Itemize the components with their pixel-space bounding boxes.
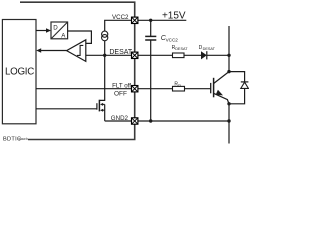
svg-text:D: D <box>53 24 58 31</box>
source arrow <box>100 109 103 112</box>
node C_VCC2/GND2 junction <box>149 119 152 122</box>
LOGIC block U1 <box>2 20 36 124</box>
svg-text:LOGIC: LOGIC <box>5 67 34 78</box>
collector rail <box>228 26 230 72</box>
pin GND2 <box>132 118 138 124</box>
DESAT wire row <box>86 54 173 56</box>
node DESAT junction <box>103 54 106 57</box>
emitter arrow <box>216 90 223 96</box>
resistor R_DESAT <box>173 53 185 58</box>
wire diode to collector node <box>207 54 229 56</box>
node collector junction <box>227 70 230 73</box>
svg-text:DESAT: DESAT <box>175 47 188 51</box>
pin OFF <box>132 86 138 92</box>
channel bar <box>213 78 215 98</box>
svg-text:OFF: OFF <box>114 91 127 98</box>
blanking MOSFET Q1 <box>36 55 105 121</box>
node DESAT/collector junction <box>227 54 230 57</box>
label R_G <box>174 82 181 88</box>
wire DAC output to comparator plus input <box>68 31 92 43</box>
diode D_DESAT <box>201 51 207 59</box>
FLT off / OFF wire row <box>36 88 173 90</box>
wire comparator output to LOGIC with arrow <box>36 48 66 53</box>
gate bar <box>96 103 98 110</box>
body arrow <box>100 103 103 106</box>
wire LOGIC to DAC with arrow <box>36 28 51 33</box>
label C_VCC2 <box>161 35 178 42</box>
pin VCC2 <box>132 17 138 23</box>
DAC block D/A <box>51 22 68 39</box>
wire resistor to diode <box>184 54 201 56</box>
capacitor C_VCC2 <box>145 20 156 121</box>
svg-text:VCC2: VCC2 <box>166 37 179 42</box>
label R_DESAT <box>172 45 189 51</box>
svg-text:DESAT: DESAT <box>203 47 216 51</box>
svg-text:GND2: GND2 <box>111 115 129 122</box>
svg-text:www.b: www.b <box>19 137 29 141</box>
emitter rail to bottom <box>228 104 230 144</box>
gate driver IC package outline <box>20 2 135 139</box>
label D_DESAT <box>199 45 216 51</box>
svg-text:DESAT: DESAT <box>109 49 133 56</box>
collector lead <box>214 72 229 84</box>
wire current source to DESAT node <box>104 41 106 56</box>
current source (double circle) <box>102 31 108 41</box>
emitter lead <box>214 93 229 104</box>
svg-text:FLT off: FLT off <box>112 83 131 90</box>
wire R_G to IGBT gate <box>185 88 211 90</box>
IGBT T1 <box>211 72 229 104</box>
source/body vertical to GND2 <box>104 104 106 121</box>
node VCC2/C junction <box>149 19 152 22</box>
gate bar <box>210 83 212 93</box>
pin DESAT <box>132 52 138 58</box>
node emitter junction <box>227 102 230 105</box>
gate wire <box>36 108 97 110</box>
svg-text:+15V: +15V <box>162 10 186 21</box>
GND2 wire row <box>105 120 229 122</box>
channel bar <box>98 100 100 112</box>
freewheeling diode D1 <box>229 72 248 104</box>
resistor R_G <box>173 86 185 91</box>
VCC2 wire row <box>105 20 187 31</box>
svg-text:G: G <box>178 84 181 88</box>
drain tap <box>100 55 105 100</box>
comparator with hysteresis <box>67 40 86 62</box>
svg-text:VCC2: VCC2 <box>112 14 129 21</box>
node emitter/GND2 junction <box>227 119 230 122</box>
